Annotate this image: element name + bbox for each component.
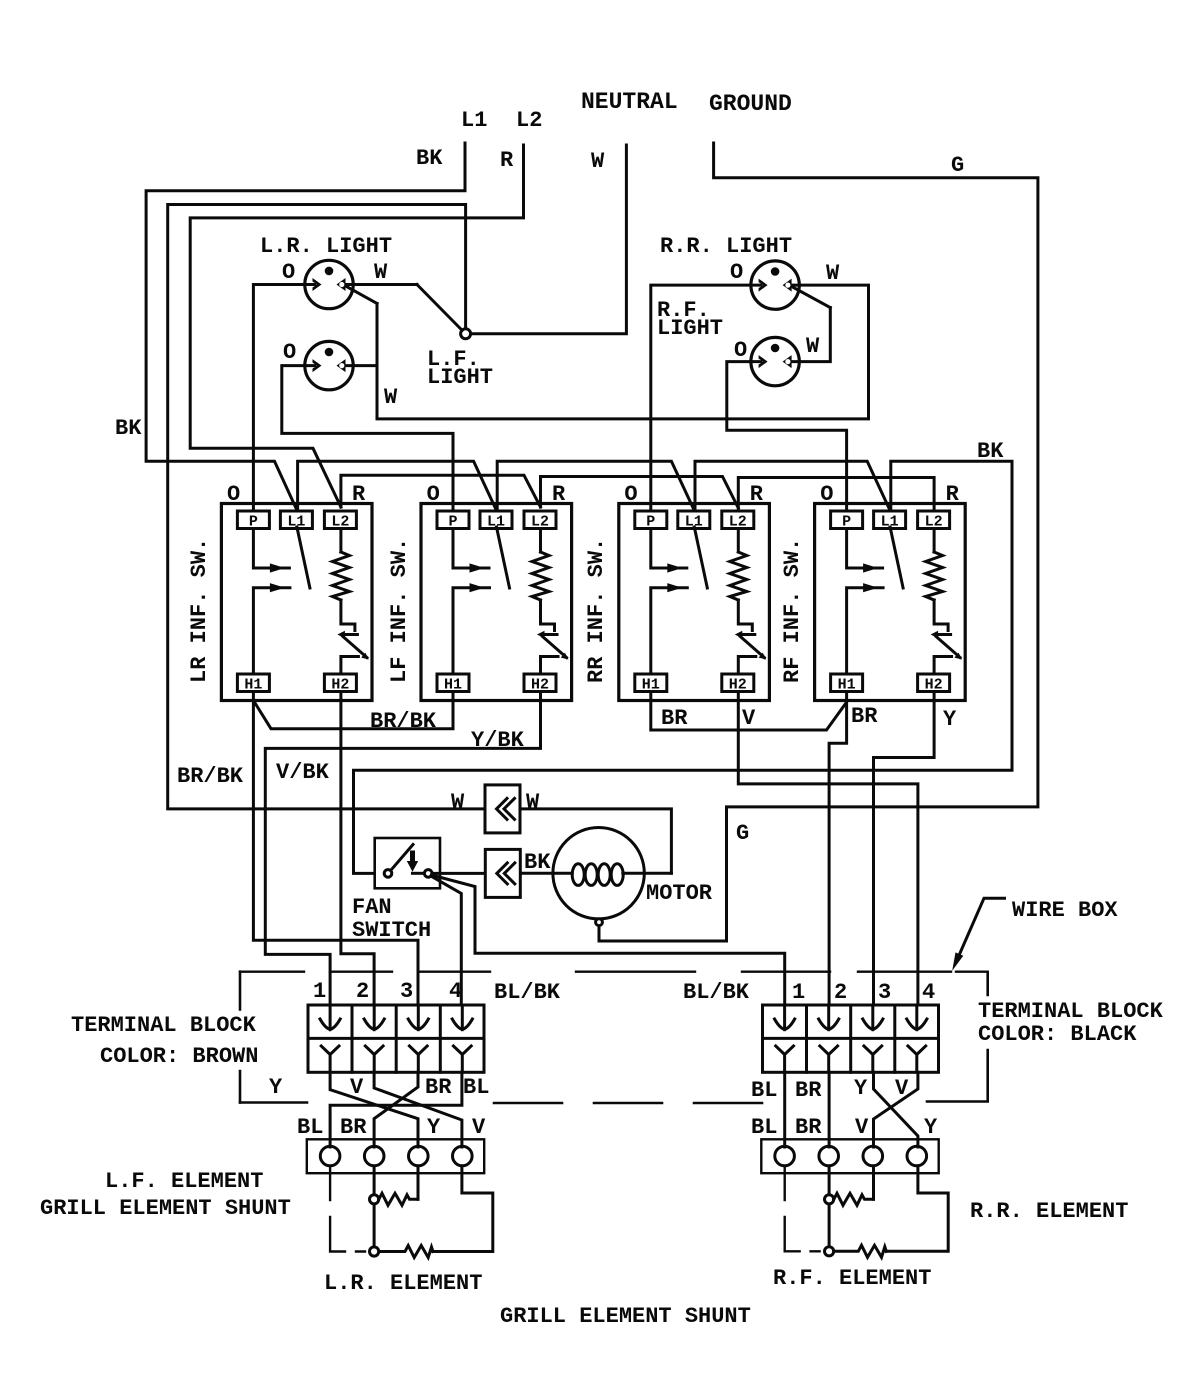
svg-text:FAN: FAN — [352, 895, 392, 920]
svg-text:BL/BK: BL/BK — [494, 980, 561, 1005]
terminal block brown — [308, 1005, 484, 1072]
lamp L.F. LIGHT — [305, 341, 353, 389]
resistor R.F. element (lower right) — [834, 1245, 887, 1257]
svg-text:COLOR: BROWN: COLOR: BROWN — [100, 1044, 258, 1069]
wire brown t3 to element c2 — [374, 1072, 418, 1147]
svg-text:RF INF. SW.: RF INF. SW. — [780, 538, 805, 683]
svg-text:O: O — [734, 338, 747, 363]
svg-text:GRILL ELEMENT SHUNT: GRILL ELEMENT SHUNT — [40, 1196, 291, 1221]
svg-text:O: O — [282, 260, 295, 285]
svg-text:GROUND: GROUND — [709, 91, 792, 117]
svg-text:LF INF. SW.: LF INF. SW. — [387, 538, 412, 683]
svg-text:BL: BL — [751, 1078, 777, 1103]
wire LR H1 down to brown terminal 3 — [253, 692, 418, 1006]
svg-text:COLOR: BLACK: COLOR: BLACK — [978, 1022, 1137, 1047]
svg-text:BR: BR — [795, 1078, 822, 1103]
svg-text:BR: BR — [795, 1115, 822, 1140]
element strip right — [761, 1139, 938, 1173]
svg-text:SWITCH: SWITCH — [352, 918, 431, 943]
svg-text:BK: BK — [115, 416, 142, 441]
svg-text:R.F. ELEMENT: R.F. ELEMENT — [773, 1266, 931, 1291]
wire R bus segment 4 — [738, 478, 934, 511]
wire BR/BK: LR H1 diagonal to LF H1 — [255, 692, 453, 729]
resistor L.R. element (lower left) — [379, 1246, 433, 1258]
fan switch blade — [391, 845, 413, 871]
svg-text:BK: BK — [524, 850, 551, 875]
svg-text:R: R — [500, 148, 514, 173]
wire LF light O pin to LF switch P — [282, 366, 453, 511]
svg-text:LIGHT: LIGHT — [657, 316, 723, 341]
switch RR INF. SW. — [619, 504, 770, 701]
svg-text:BL/BK: BL/BK — [683, 980, 750, 1005]
wire ground G: drop, top run, right column, bottom run to motor frame — [599, 143, 1038, 941]
wire R bus segment 3 — [541, 477, 739, 509]
wire fan switch right to black terminal 1 (BL/BK) — [432, 875, 785, 1005]
junction circle lower right element — [825, 1247, 834, 1256]
junction circle upper right element — [825, 1195, 834, 1204]
svg-text:L2: L2 — [516, 108, 542, 133]
terminal block black — [763, 1005, 939, 1072]
wire right c2 down through both junctions — [828, 1166, 831, 1247]
junction circle upper left element — [370, 1195, 379, 1204]
motor coil — [572, 864, 584, 886]
svg-text:BR: BR — [425, 1075, 452, 1100]
svg-text:BR: BR — [851, 704, 878, 729]
connector BK — [485, 849, 520, 897]
fan switch arrow — [407, 851, 418, 872]
svg-text:NEUTRAL: NEUTRAL — [581, 89, 678, 115]
lamp R.R. LIGHT — [751, 261, 799, 309]
fan switch right contact — [424, 870, 432, 878]
wire right c1 dashed shunt link — [785, 1166, 820, 1251]
svg-text:BR: BR — [661, 706, 688, 731]
wire brown t2 to element c4 — [374, 1072, 462, 1147]
wire diagonal LR light W pin to junction circle — [417, 285, 462, 331]
svg-text:WIRE BOX: WIRE BOX — [1012, 898, 1118, 923]
wire black t1 to element c1 — [783, 1072, 786, 1147]
wire W junction riser to lamp-neutral run and motor W line — [168, 205, 485, 809]
wire W motor loop (right of connector, around motor) — [520, 809, 671, 873]
svg-text:Y: Y — [924, 1115, 938, 1140]
wire box dashed top border — [240, 971, 988, 973]
junction node circle (W splice) — [461, 329, 471, 339]
junction circle lower left element — [370, 1247, 379, 1256]
svg-text:Y: Y — [854, 1076, 868, 1101]
svg-text:RR INF. SW.: RR INF. SW. — [584, 538, 609, 683]
svg-text:W: W — [806, 334, 820, 359]
wire diagonal LR light W to LF light column — [343, 285, 377, 304]
fan switch arrow stub wire — [413, 872, 425, 875]
svg-text:BR/BK: BR/BK — [177, 764, 244, 789]
svg-text:4: 4 — [922, 980, 935, 1005]
wire left c3 to upper resistor — [417, 1166, 420, 1199]
svg-text:Y: Y — [943, 707, 957, 732]
motor circle — [553, 828, 644, 919]
resistor L.F. element (upper left) — [379, 1193, 418, 1205]
fan switch left contact — [384, 870, 392, 878]
wire left c2 down through both junctions — [373, 1166, 376, 1247]
wire box dashed left border — [239, 972, 242, 1103]
svg-text:2: 2 — [834, 980, 847, 1005]
wire BR: RR H1 to RF H1 diagonal — [651, 692, 846, 731]
svg-text:TERMINAL BLOCK: TERMINAL BLOCK — [978, 999, 1164, 1024]
wire V/BK: LF H2 to brown terminal 1 — [265, 692, 540, 1006]
wire box leader arrow — [959, 898, 1005, 956]
wire box dashed right border — [986, 973, 989, 1101]
wire L2/R: drop, left run, R bus staircase threading L2 terminals — [190, 145, 523, 507]
svg-text:W: W — [526, 790, 540, 815]
switch RF INF. SW. — [815, 504, 966, 701]
wire BK bus segment 4 (threads RR L1) — [695, 461, 889, 509]
wire black t3 to element c4 — [874, 1072, 918, 1147]
svg-text:R.R. ELEMENT: R.R. ELEMENT — [970, 1199, 1128, 1224]
wire BK bus segment 3 (threads LF L1) — [497, 461, 693, 509]
svg-text:3: 3 — [878, 980, 891, 1005]
motor coil leads — [623, 872, 672, 875]
lamp R.F. LIGHT — [751, 337, 799, 385]
svg-text:R: R — [750, 482, 764, 507]
lamp L.R. LIGHT — [305, 260, 353, 308]
switch LR INF. SW. — [221, 504, 372, 701]
svg-text:GRILL ELEMENT SHUNT: GRILL ELEMENT SHUNT — [500, 1304, 751, 1329]
svg-text:R.R. LIGHT: R.R. LIGHT — [660, 234, 792, 259]
wire brown t1 to element c3 — [330, 1072, 418, 1147]
svg-text:V/BK: V/BK — [276, 760, 330, 785]
switch LF INF. SW. — [421, 504, 572, 701]
svg-text:BK: BK — [977, 439, 1004, 464]
svg-text:Y: Y — [269, 1075, 283, 1100]
svg-text:L.R. LIGHT: L.R. LIGHT — [260, 234, 392, 259]
wire right c4 loop to lower resistor — [886, 1166, 948, 1251]
svg-text:1: 1 — [313, 979, 326, 1004]
svg-text:V: V — [742, 706, 756, 731]
svg-text:BR/BK: BR/BK — [370, 709, 437, 734]
svg-text:O: O — [283, 340, 296, 365]
wire RR light O pin to RR switch P — [651, 285, 761, 511]
wire RF light O pin to RF switch P — [727, 362, 847, 511]
svg-text:O: O — [820, 482, 833, 507]
svg-text:BK: BK — [416, 146, 443, 171]
wire fan switch to BK connector to motor — [432, 872, 572, 875]
wire left c1 dashed shunt link — [330, 1166, 365, 1252]
svg-text:W: W — [591, 149, 605, 174]
fan switch box — [375, 838, 440, 888]
svg-text:W: W — [451, 790, 465, 815]
svg-text:V: V — [472, 1115, 486, 1140]
svg-text:O: O — [227, 482, 240, 507]
svg-text:BL: BL — [751, 1115, 777, 1140]
svg-text:TERMINAL BLOCK: TERMINAL BLOCK — [71, 1013, 257, 1038]
svg-text:R: R — [552, 482, 566, 507]
svg-text:Y: Y — [427, 1115, 441, 1140]
svg-text:2: 2 — [356, 979, 369, 1004]
svg-text:MOTOR: MOTOR — [646, 881, 713, 906]
svg-text:G: G — [951, 153, 964, 178]
wire L1/BK: drop, left run, left column, BK bus, right drop, return to fan switch — [146, 143, 465, 509]
svg-text:V: V — [855, 1115, 869, 1140]
svg-text:W: W — [384, 385, 398, 410]
svg-text:BL: BL — [297, 1115, 323, 1140]
svg-text:R: R — [352, 482, 366, 507]
wire box dashed bottom border — [240, 1102, 988, 1104]
svg-text:L1: L1 — [461, 108, 487, 133]
svg-text:W: W — [826, 261, 840, 286]
wire RF H1 down to black terminal 2 — [829, 692, 847, 1006]
svg-text:R: R — [946, 482, 960, 507]
wire diagonal RR light W to RF light column — [789, 285, 830, 308]
wire RF light W column — [789, 308, 830, 362]
wire RR H2 down to black terminal 4 — [738, 692, 918, 1006]
svg-text:L.F. ELEMENT: L.F. ELEMENT — [105, 1169, 263, 1194]
svg-text:W: W — [374, 260, 388, 285]
svg-text:Y/BK: Y/BK — [471, 728, 525, 753]
motor bottom terminal — [596, 919, 603, 926]
wire RF H2 down to black terminal 3 — [874, 692, 935, 1006]
wire brown t4 to element c1 — [330, 1072, 462, 1147]
wire LR light O pin to LR switch P — [253, 285, 315, 512]
wire left c4 loop to lower resistor — [433, 1166, 493, 1252]
wire LR H2 down to brown terminal 2 — [341, 692, 374, 1006]
svg-text:3: 3 — [400, 979, 413, 1004]
wire lamp W column and bottom W run to right lights — [377, 285, 869, 419]
wire LF light W pin horizontal — [343, 364, 377, 367]
element strip left — [307, 1139, 484, 1173]
svg-text:BL: BL — [463, 1075, 489, 1100]
resistor R.R. element (upper right) — [834, 1193, 874, 1205]
wire black t4 to element c3 — [874, 1072, 918, 1147]
wire fan switch right to brown terminal 4 (BL/BK) — [431, 876, 462, 1005]
svg-text:O: O — [427, 482, 440, 507]
svg-text:L.R. ELEMENT: L.R. ELEMENT — [324, 1271, 482, 1296]
svg-text:O: O — [624, 482, 637, 507]
svg-text:G: G — [736, 821, 749, 846]
svg-text:LR INF. SW.: LR INF. SW. — [187, 538, 212, 683]
svg-text:BR: BR — [340, 1115, 367, 1140]
svg-text:O: O — [730, 260, 743, 285]
connector W — [485, 785, 520, 833]
wire R bus segment 2 — [341, 475, 541, 507]
wire right c3 to upper resistor — [872, 1166, 875, 1199]
wire LR light W pin horizontal — [343, 283, 417, 286]
svg-text:1: 1 — [792, 980, 805, 1005]
wire BK bus segment 2 (threads LR L1) — [298, 461, 496, 509]
svg-text:LIGHT: LIGHT — [427, 365, 493, 390]
wire neutral W drop to junction — [471, 145, 627, 334]
svg-text:4: 4 — [449, 979, 462, 1004]
wire BK bus segment 5: to right drop, return to fan switch — [354, 461, 1013, 873]
wire black t2 to element c2 — [828, 1072, 831, 1147]
